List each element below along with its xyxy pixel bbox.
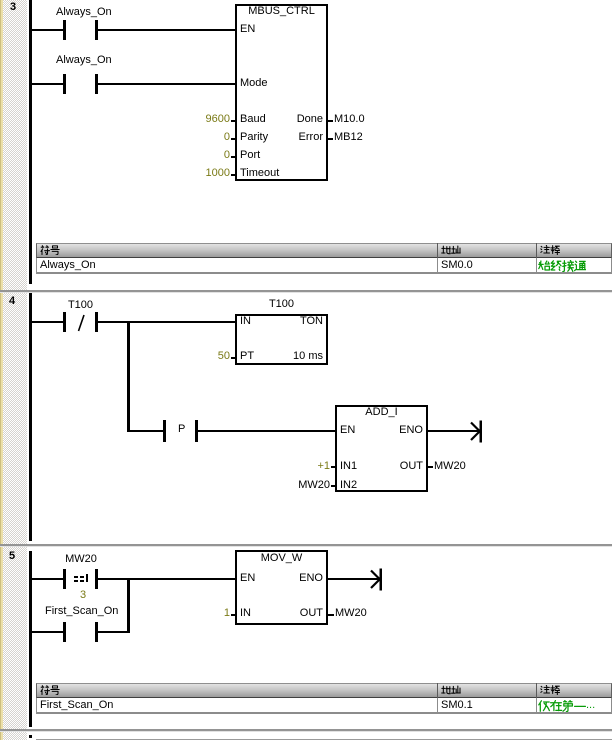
compare contact operand MW20 <box>64 554 98 565</box>
wire: compare contact to MOV_W EN pin <box>98 578 236 580</box>
pin label ENO <box>273 573 323 584</box>
contact I1 Always_On (NO) left bar <box>63 20 66 40</box>
compare contact ==I right bar <box>95 569 98 589</box>
timer block label T100 <box>235 299 328 310</box>
separator below network 5 <box>0 729 612 731</box>
row column separator <box>536 698 537 714</box>
wire: rail to compare contact <box>31 578 63 580</box>
continuation arrow after MOV_W ENO <box>368 567 384 592</box>
symbol table network 3: data row <box>36 258 612 274</box>
block type TON <box>273 316 323 327</box>
wire: contact T100 to timer IN pin <box>98 321 236 323</box>
wire: contact I2 to MBUS_CTRL Mode pin <box>98 83 236 85</box>
PT pin stub <box>231 357 236 359</box>
wire: rail to First_Scan_On contact <box>31 631 63 633</box>
contact I2 Always_On (NO) left bar <box>63 74 66 94</box>
header caption 注释 <box>540 685 560 695</box>
row column separator <box>536 258 537 274</box>
value 9600 on Baud pin <box>190 114 230 125</box>
value +1 on IN1 pin <box>290 461 330 472</box>
wire: ENO to continuation arrow <box>428 430 480 432</box>
pin label ENO <box>373 425 423 436</box>
wire: branch to P contact <box>130 430 164 432</box>
wire: P contact to ADD_I EN pin <box>198 430 335 432</box>
IN2 pin stub <box>331 485 336 487</box>
contact P (positive edge) right bar <box>195 420 198 442</box>
contact I1: Always_On label <box>56 7 112 18</box>
compare contact ==I symbol <box>74 576 78 578</box>
header column separator <box>437 683 438 698</box>
IN1 pin stub <box>331 466 336 468</box>
separator between network 3 and 4 <box>0 290 612 292</box>
pin label Baud <box>240 114 266 125</box>
time base 10 ms <box>273 351 323 362</box>
contact I2: Always_On label <box>56 55 112 66</box>
Error output pin stub <box>328 138 333 140</box>
margin colour strip <box>0 0 3 740</box>
OUT pin stub <box>328 614 334 616</box>
top edge of next element (cut off) <box>36 739 612 740</box>
operand MW20 on OUT pin <box>335 608 367 619</box>
header caption 注释 <box>540 245 560 255</box>
row column separator <box>437 698 438 714</box>
pin label EN <box>340 425 355 436</box>
contact First_Scan_On label <box>45 606 118 617</box>
contact First_Scan_On (NO) right bar <box>95 622 98 642</box>
operand MB12 on Error output <box>334 132 363 143</box>
pin label Port <box>240 150 260 161</box>
symbol table network 3: header <box>36 243 612 259</box>
wire: rail to contact I1 <box>31 29 63 31</box>
contact First_Scan_On (NO) left bar <box>63 622 66 642</box>
symbol name Always_On <box>40 260 96 271</box>
value 0 on Port pin <box>190 150 230 161</box>
ADD_I title <box>335 407 428 418</box>
header caption 符号 <box>40 685 60 695</box>
row column separator <box>437 258 438 274</box>
IN pin stub <box>231 614 236 616</box>
pin label IN1 <box>340 461 357 472</box>
operand MW20 on OUT pin <box>434 461 466 472</box>
network 3 number <box>10 2 16 13</box>
header caption 地址 <box>441 245 461 255</box>
network 4 number <box>9 296 15 307</box>
wire: vertical branch joining parallel contacts <box>127 578 130 633</box>
symbol table network 5: header <box>36 683 612 699</box>
contact I2 Always_On (NO) right bar <box>95 74 98 94</box>
contact T100 (NC) right bar <box>95 312 98 332</box>
value 1 on IN pin <box>190 608 230 619</box>
continuation arrow after ADD_I ENO <box>468 419 484 444</box>
left power rail (network 3) <box>29 0 32 284</box>
wire: rail to contact T100 <box>31 321 63 323</box>
header caption 地址 <box>441 685 461 695</box>
pin label Mode <box>240 78 268 89</box>
Parity pin stub <box>231 138 236 140</box>
MBUS_CTRL title <box>235 6 328 17</box>
wire: vertical branch down to P contact row <box>127 321 130 432</box>
pin label IN2 <box>340 480 357 491</box>
pin label Timeout <box>240 168 279 179</box>
pin label IN <box>240 608 251 619</box>
value 0 on Parity pin <box>190 132 230 143</box>
pin label IN <box>240 316 251 327</box>
OUT pin stub <box>428 466 433 468</box>
header column separator <box>536 683 537 698</box>
header column separator <box>536 243 537 258</box>
pin label OUT <box>373 461 423 472</box>
comment 仅在第一… <box>538 700 586 712</box>
pin label Done <box>273 114 323 125</box>
contact P letter <box>178 424 185 435</box>
Done output pin stub <box>328 120 333 122</box>
Timeout pin stub <box>231 174 236 176</box>
pin label OUT <box>273 608 323 619</box>
operand MW20 on IN2 pin <box>290 480 330 491</box>
function block MOV_W <box>235 550 328 625</box>
network 5 number <box>9 551 15 562</box>
function block MBUS_CTRL <box>235 4 328 181</box>
left power rail (network 5) <box>29 551 32 727</box>
symbol name First_Scan_On <box>40 700 113 711</box>
symbol table network 5: data row <box>36 698 612 714</box>
network gutter (dithered) <box>3 0 27 740</box>
pin label EN <box>240 24 255 35</box>
left power rail stub (network 6, cut off) <box>29 735 32 738</box>
pin label PT <box>240 351 254 362</box>
wire: rail to contact I2 <box>31 83 63 85</box>
compare contact ==I left bar <box>63 569 66 589</box>
pin label EN <box>240 573 255 584</box>
header caption 符号 <box>40 245 60 255</box>
left power rail (network 4) <box>29 293 32 541</box>
Port pin stub <box>231 156 236 158</box>
contact T100 NC slash <box>76 312 86 332</box>
operand M10.0 on Done output <box>334 114 365 125</box>
contact T100 (NC) left bar <box>63 312 66 332</box>
pin label Error <box>273 132 323 143</box>
header column separator <box>437 243 438 258</box>
glyph defs for CJK characters <box>0 0 1 1</box>
contact I1 Always_On (NO) right bar <box>95 20 98 40</box>
timer block TON <box>235 314 328 365</box>
comment 始终接通 <box>538 260 586 272</box>
address SM0.1 <box>441 700 473 711</box>
Baud pin stub <box>231 120 236 122</box>
function block ADD_I <box>335 405 428 492</box>
value 1000 on Timeout pin <box>190 168 230 179</box>
wire: First_Scan_On contact to branch <box>98 631 130 633</box>
MOV_W title <box>235 553 328 564</box>
wire: ENO to continuation arrow <box>328 578 380 580</box>
wire: contact I1 to MBUS_CTRL EN pin <box>98 29 236 31</box>
address SM0.0 <box>441 260 473 271</box>
pin label Parity <box>240 132 268 143</box>
contact T100 (NC) label <box>67 300 94 311</box>
contact P (positive edge) left bar <box>163 420 166 442</box>
compare constant 3 <box>80 590 86 601</box>
value 50 on PT pin <box>190 351 230 362</box>
separator between network 4 and 5 <box>0 544 612 546</box>
